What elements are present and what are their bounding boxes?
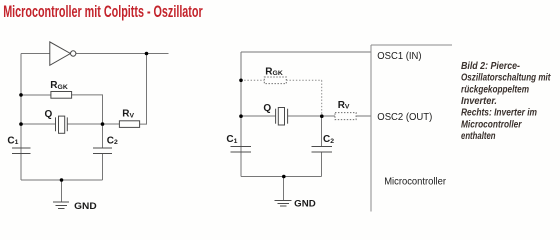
- node: inverter output junction (left): [145, 52, 149, 56]
- caption: Bild 2: [461, 61, 551, 142]
- resistor RGK (right, dotted): [264, 77, 286, 84]
- inverter U1 (triangle + bubble): [50, 42, 76, 65]
- wire: crystal right lead: [67, 123, 102, 125]
- wire: C1 bottom stem (right): [240, 152, 242, 177]
- node: RGK tap (right rail): [239, 79, 243, 83]
- node: crystal/RV/C2 junction (left): [101, 122, 105, 126]
- svg-text:Microcontroller: Microcontroller: [384, 176, 446, 187]
- svg-text:enthalten: enthalten: [461, 131, 496, 142]
- wire: dotted drop from RGK to crystal node (right): [321, 80, 323, 116]
- microcontroller box outline: [371, 45, 452, 211]
- svg-text:Inverter.: Inverter.: [461, 96, 497, 107]
- svg-text:Microcontroller mit Colpitts -: Microcontroller mit Colpitts - Oszillato…: [3, 3, 203, 21]
- wire: inverter input: [21, 53, 50, 55]
- crystal Q (right): [276, 108, 288, 126]
- node: ground junction (right): [282, 175, 286, 179]
- wire: C2 top stem: [102, 124, 104, 148]
- node: crystal tap on left rail: [19, 122, 23, 126]
- wire: left vertical rail: [20, 54, 22, 181]
- svg-text:Bild 2: Pierce-: Bild 2: Pierce-: [461, 61, 520, 72]
- wire: RV right lead up to output node: [140, 54, 147, 125]
- wire: inverter output to stub end: [76, 53, 169, 55]
- node: ground junction (left): [60, 178, 64, 182]
- wire: crystal right lead (right): [288, 115, 322, 117]
- capacitor C1 (right): [230, 146, 251, 152]
- node: RGK tap on left rail: [19, 93, 23, 97]
- wire: left vertical rail (right circuit): [240, 52, 242, 177]
- svg-text:Microcontroller: Microcontroller: [461, 120, 523, 131]
- wire: dotted RGK right lead (right): [286, 79, 322, 81]
- resistor RV (left): [119, 121, 139, 128]
- wire: C2 bottom stem (right): [321, 152, 323, 177]
- ground (left): [53, 202, 69, 208]
- wire: RV right lead to OSC2: [356, 115, 371, 117]
- svg-text:OSC1 (IN): OSC1 (IN): [377, 51, 421, 62]
- wire: bottom rail: [21, 179, 103, 181]
- capacitor C1 (left): [12, 148, 31, 154]
- svg-text:Oszillatorschaltung mit: Oszillatorschaltung mit: [461, 73, 551, 84]
- wire: crystal left lead (right): [241, 115, 276, 117]
- svg-text:GND: GND: [294, 199, 316, 210]
- svg-text:Rechts: Inverter im: Rechts: Inverter im: [461, 108, 537, 119]
- capacitor C2 (left): [93, 148, 112, 154]
- wire: RV left lead: [103, 123, 120, 125]
- wire: C1 top stem (right): [240, 116, 242, 146]
- wire: crystal left lead: [21, 123, 56, 125]
- capacitor C2 (right): [311, 146, 332, 152]
- svg-text:Q: Q: [45, 109, 53, 120]
- wire: C1 bottom stem: [20, 154, 22, 180]
- svg-text:rückgekoppeltem: rückgekoppeltem: [461, 84, 529, 95]
- wire: RV left lead (right): [322, 115, 335, 117]
- wire: bottom rail (right): [241, 176, 322, 178]
- wire: top rail to OSC1: [241, 51, 371, 53]
- node: crystal/RV/C2 junction (right): [320, 114, 324, 118]
- wire: ground stem: [61, 180, 63, 202]
- crystal Q (left): [56, 116, 68, 133]
- svg-text:GND: GND: [74, 201, 97, 212]
- svg-text:OSC2 (OUT): OSC2 (OUT): [377, 112, 432, 123]
- node: crystal tap (right rail): [239, 114, 243, 118]
- wire: ground stem (right): [283, 177, 285, 201]
- resistor RV (right, dotted): [335, 113, 356, 120]
- wire: C2 bottom stem: [102, 154, 104, 180]
- wire: RGK left lead: [21, 94, 51, 96]
- wire: C1 top stem: [20, 124, 22, 148]
- svg-text:Q: Q: [263, 103, 271, 114]
- wire: RGK right lead and drop: [72, 95, 103, 124]
- wire: C2 top stem (right): [321, 116, 323, 146]
- resistor RGK (left): [51, 92, 72, 99]
- wire: dotted RGK left lead (right): [241, 79, 264, 81]
- ground (right): [275, 200, 292, 206]
